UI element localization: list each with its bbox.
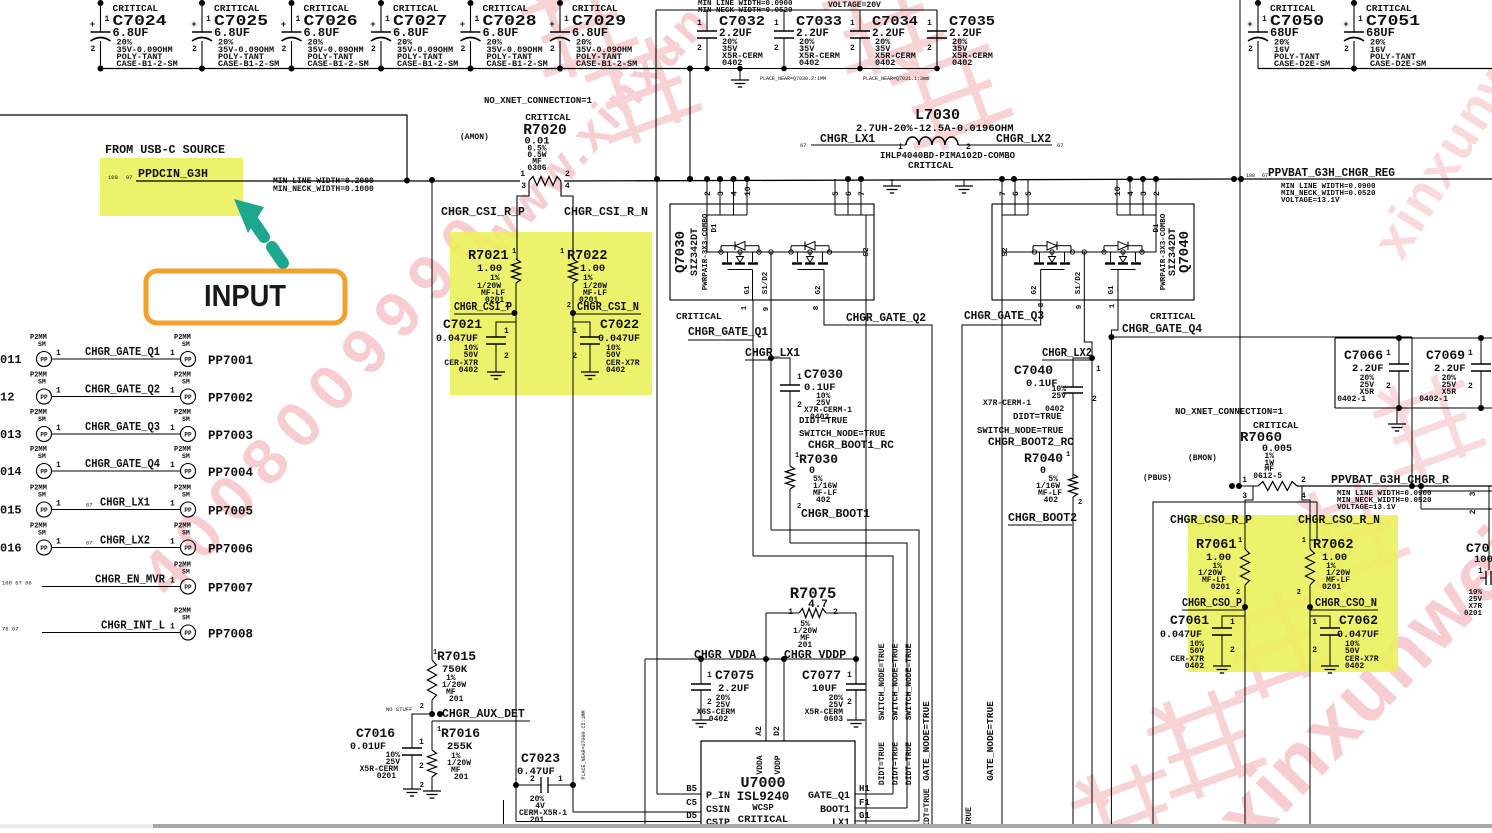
svg-text:2: 2 <box>847 698 852 707</box>
svg-text:PP: PP <box>184 630 192 637</box>
svg-text:SWITCH_NODE=TRUE: SWITCH_NODE=TRUE <box>892 643 901 720</box>
svg-text:2: 2 <box>1092 395 1097 404</box>
svg-text:2: 2 <box>704 191 713 196</box>
svg-text:1: 1 <box>927 19 932 28</box>
svg-text:402: 402 <box>816 496 831 505</box>
svg-text:SWITCH_NODE=TRUE: SWITCH_NODE=TRUE <box>878 643 887 720</box>
svg-text:VOLTAGE=13.1V: VOLTAGE=13.1V <box>1337 504 1396 512</box>
svg-text:1: 1 <box>741 305 749 310</box>
svg-text:SM: SM <box>38 492 46 499</box>
svg-text:VDDP: VDDP <box>774 755 783 774</box>
svg-text:1: 1 <box>1358 15 1363 24</box>
svg-text:2: 2 <box>461 45 466 54</box>
svg-text:G2: G2 <box>815 285 823 295</box>
svg-text:NO_XNET_CONNECTION=1: NO_XNET_CONNECTION=1 <box>484 96 593 106</box>
svg-text:0201: 0201 <box>377 772 396 781</box>
svg-text:0.01UF: 0.01UF <box>350 742 386 753</box>
svg-text:1: 1 <box>1478 567 1483 576</box>
svg-text:0402: 0402 <box>1185 662 1204 671</box>
svg-text:1: 1 <box>170 577 175 586</box>
svg-text:C7062: C7062 <box>1339 613 1378 628</box>
svg-text:CHGR_CSO_N: CHGR_CSO_N <box>1315 597 1377 610</box>
svg-text:PP: PP <box>184 545 192 552</box>
svg-text:MIN_NECK_WIDTH=0.1000: MIN_NECK_WIDTH=0.1000 <box>273 185 374 194</box>
svg-text:1: 1 <box>170 424 175 433</box>
svg-text:+: + <box>90 20 95 30</box>
svg-text:1: 1 <box>385 15 390 24</box>
svg-text:SWITCH_NODE=TRUE: SWITCH_NODE=TRUE <box>977 426 1064 436</box>
svg-text:2: 2 <box>419 762 424 771</box>
svg-text:1: 1 <box>56 387 61 396</box>
svg-text:PPVBAT_G3H_CHGR_R: PPVBAT_G3H_CHGR_R <box>1331 473 1450 487</box>
svg-text:0402-1: 0402-1 <box>1419 395 1448 404</box>
svg-text:F1: F1 <box>859 798 870 808</box>
svg-text:DIDT=TRUE: DIDT=TRUE <box>878 742 887 785</box>
svg-text:8: 8 <box>813 305 821 310</box>
svg-text:011: 011 <box>0 353 22 367</box>
svg-text:SM: SM <box>38 341 46 348</box>
svg-text:PP: PP <box>184 432 192 439</box>
svg-text:CRITICAL: CRITICAL <box>525 112 571 123</box>
svg-text:SM: SM <box>182 530 190 537</box>
svg-text:C7069: C7069 <box>1426 348 1465 363</box>
svg-text:0402: 0402 <box>459 366 478 375</box>
svg-text:25V: 25V <box>1052 392 1067 401</box>
svg-text:4: 4 <box>565 182 570 191</box>
svg-text:VOLTAGE=20V: VOLTAGE=20V <box>828 1 881 10</box>
svg-text:G2: G2 <box>1031 285 1039 295</box>
svg-text:PP: PP <box>40 357 48 364</box>
svg-text:0402: 0402 <box>799 58 819 68</box>
svg-text:SM: SM <box>38 453 46 460</box>
svg-text:SM: SM <box>182 492 190 499</box>
svg-text:1: 1 <box>419 738 424 747</box>
svg-text:1: 1 <box>1386 349 1391 358</box>
svg-text:CASE-B1-2-SM: CASE-B1-2-SM <box>308 59 369 69</box>
svg-text:2: 2 <box>927 44 932 53</box>
svg-text:4: 4 <box>1127 191 1136 196</box>
svg-text:CHGR_GATE_Q1: CHGR_GATE_Q1 <box>85 346 160 359</box>
svg-text:1: 1 <box>797 373 802 382</box>
svg-text:D2: D2 <box>773 726 782 736</box>
svg-text:CASE-B1-2-SM: CASE-B1-2-SM <box>487 59 548 69</box>
svg-text:C7066: C7066 <box>1344 348 1383 363</box>
svg-text:2: 2 <box>530 775 535 784</box>
svg-text:C7061: C7061 <box>1170 613 1209 628</box>
svg-text:VOLTAGE=13.1V: VOLTAGE=13.1V <box>1281 197 1340 205</box>
svg-text:0402: 0402 <box>875 58 895 68</box>
svg-text:0402-1: 0402-1 <box>1337 395 1366 404</box>
svg-text:SM: SM <box>182 569 190 576</box>
svg-text:CHGR_CSI_P: CHGR_CSI_P <box>454 301 512 314</box>
svg-text:2: 2 <box>1386 382 1391 391</box>
svg-text:S1/D2: S1/D2 <box>762 271 770 294</box>
svg-text:1: 1 <box>56 349 61 358</box>
svg-text:9: 9 <box>763 306 771 311</box>
svg-text:+: + <box>191 20 196 30</box>
svg-text:NO_XNET_CONNECTION=1: NO_XNET_CONNECTION=1 <box>1175 407 1284 417</box>
svg-text:CHGR_BOOT1_RC: CHGR_BOOT1_RC <box>808 440 894 452</box>
svg-text:0612-5: 0612-5 <box>1253 472 1282 481</box>
svg-text:CHGR_INT_L: CHGR_INT_L <box>101 620 165 633</box>
svg-text:0201: 0201 <box>1322 583 1341 592</box>
svg-text:2: 2 <box>282 45 287 54</box>
svg-text:7: 7 <box>858 191 867 196</box>
svg-text:D5: D5 <box>686 811 697 821</box>
svg-text:(AMON): (AMON) <box>460 133 489 142</box>
svg-text:PPVBAT_G3H_CHGR_REG: PPVBAT_G3H_CHGR_REG <box>1268 167 1395 180</box>
svg-text:2: 2 <box>1312 646 1317 655</box>
svg-text:B5: B5 <box>686 784 697 794</box>
svg-text:1: 1 <box>707 671 712 680</box>
svg-text:C7021: C7021 <box>443 317 482 332</box>
svg-text:67: 67 <box>800 142 807 149</box>
svg-text:5: 5 <box>832 191 841 196</box>
svg-text:2: 2 <box>1236 589 1240 597</box>
svg-text:P_IN: P_IN <box>706 791 730 802</box>
svg-text:GATE_NODE=TRUE: GATE_NODE=TRUE <box>921 701 932 781</box>
svg-text:CHGR_CSI_R_P: CHGR_CSI_R_P <box>441 206 525 219</box>
svg-text:DIDT=TRUE: DIDT=TRUE <box>923 788 932 828</box>
svg-text:R7030: R7030 <box>799 452 838 467</box>
svg-text:2.7UH-20%-12.5A-0.0196OHM: 2.7UH-20%-12.5A-0.0196OHM <box>856 123 1014 135</box>
svg-text:+: + <box>370 20 375 30</box>
svg-text:1: 1 <box>170 623 175 632</box>
svg-text:1: 1 <box>1468 349 1473 358</box>
svg-text:2: 2 <box>1344 45 1349 54</box>
svg-text:G1: G1 <box>744 285 752 295</box>
svg-text:CHGR_CSO_R_N: CHGR_CSO_R_N <box>1298 514 1380 527</box>
svg-text:C7077: C7077 <box>802 668 841 683</box>
svg-text:PP: PP <box>184 357 192 364</box>
svg-text:+: + <box>281 20 286 30</box>
svg-text:2: 2 <box>192 45 197 54</box>
svg-text:100 67 66: 100 67 66 <box>2 580 32 587</box>
svg-text:CASE-B1-2-SM: CASE-B1-2-SM <box>576 59 637 69</box>
svg-text:0402: 0402 <box>606 366 625 375</box>
svg-text:X7R-CERM-1: X7R-CERM-1 <box>983 399 1031 408</box>
svg-text:ISL9240: ISL9240 <box>737 790 790 804</box>
svg-text:3: 3 <box>1140 191 1149 196</box>
svg-text:PP: PP <box>40 394 48 401</box>
svg-text:PP7006: PP7006 <box>208 543 253 557</box>
svg-text:C7030: C7030 <box>804 367 843 382</box>
svg-text:PP: PP <box>184 584 192 591</box>
svg-text:1: 1 <box>433 649 437 657</box>
svg-text:+: + <box>460 20 465 30</box>
svg-text:PLACE_NEAR=Q7030.2:1MM: PLACE_NEAR=Q7030.2:1MM <box>760 76 826 82</box>
svg-text:1: 1 <box>558 775 563 784</box>
svg-text:2: 2 <box>850 44 855 53</box>
svg-text:013: 013 <box>0 428 22 442</box>
svg-text:H1: H1 <box>859 784 870 794</box>
svg-text:CASE-B1-2-SM: CASE-B1-2-SM <box>117 59 178 69</box>
svg-text:SIZ342DT: SIZ342DT <box>690 228 701 276</box>
svg-text:(BMON): (BMON) <box>1188 454 1217 463</box>
svg-text:1: 1 <box>1312 618 1317 627</box>
svg-text:PP7002: PP7002 <box>208 392 253 406</box>
svg-text:2: 2 <box>1469 509 1478 514</box>
svg-text:0402: 0402 <box>709 715 728 724</box>
svg-text:PP: PP <box>40 545 48 552</box>
svg-text:1: 1 <box>56 500 61 509</box>
svg-text:CHGR_LX2: CHGR_LX2 <box>100 535 150 548</box>
svg-text:PP: PP <box>184 507 192 514</box>
svg-text:R7022: R7022 <box>567 249 608 264</box>
svg-text:PP7004: PP7004 <box>208 466 254 480</box>
svg-text:2: 2 <box>1301 476 1306 485</box>
svg-text:CHGR_VDDP: CHGR_VDDP <box>784 649 846 662</box>
svg-text:SM: SM <box>182 453 190 460</box>
svg-text:6: 6 <box>845 191 854 196</box>
svg-text:3: 3 <box>1469 491 1478 496</box>
svg-text:CHGR_GATE_Q2: CHGR_GATE_Q2 <box>846 312 926 325</box>
svg-text:1: 1 <box>847 671 852 680</box>
svg-text:DIDT=TRUE: DIDT=TRUE <box>905 742 914 785</box>
svg-text:0402: 0402 <box>1345 662 1364 671</box>
svg-text:1: 1 <box>1096 365 1101 374</box>
svg-text:1: 1 <box>170 387 175 396</box>
svg-text:PLACE_NEAR=U7000.C5:1MM: PLACE_NEAR=U7000.C5:1MM <box>581 710 587 779</box>
svg-text:015: 015 <box>0 504 22 518</box>
svg-text:CHGR_EN_MVR: CHGR_EN_MVR <box>95 574 165 587</box>
svg-text:1: 1 <box>56 424 61 433</box>
svg-text:SWITCH_NODE=TRUE: SWITCH_NODE=TRUE <box>905 643 914 720</box>
svg-text:CHGR_LX2: CHGR_LX2 <box>996 133 1051 146</box>
svg-text:1: 1 <box>520 170 525 179</box>
svg-text:1: 1 <box>560 248 564 256</box>
svg-text:PP: PP <box>40 507 48 514</box>
svg-text:C7022: C7022 <box>600 317 639 332</box>
svg-text:+: + <box>1343 20 1348 30</box>
svg-text:SIZ342DT: SIZ342DT <box>1168 228 1179 276</box>
svg-text:PWRPAIR-3X3-COMBO: PWRPAIR-3X3-COMBO <box>1160 213 1168 290</box>
svg-text:CHGR_GATE_Q4: CHGR_GATE_Q4 <box>1122 323 1202 336</box>
svg-text:201: 201 <box>530 816 545 825</box>
svg-text:201: 201 <box>449 695 464 704</box>
svg-text:CHGR_BOOT1: CHGR_BOOT1 <box>801 508 870 521</box>
svg-text:67: 67 <box>86 502 93 509</box>
svg-text:CASE-B1-2-SM: CASE-B1-2-SM <box>397 59 458 69</box>
svg-text:S1/D2: S1/D2 <box>1075 271 1083 294</box>
svg-text:PP: PP <box>184 394 192 401</box>
svg-text:SWITCH_NODE=TRUE: SWITCH_NODE=TRUE <box>799 429 886 439</box>
svg-text:CHGR_AUX_DET: CHGR_AUX_DET <box>442 708 525 721</box>
svg-text:2: 2 <box>1297 589 1301 597</box>
svg-text:1: 1 <box>1109 303 1117 308</box>
svg-text:0: 0 <box>1040 466 1046 477</box>
svg-text:76 67: 76 67 <box>2 626 19 633</box>
svg-text:C7040: C7040 <box>1014 363 1053 378</box>
svg-text:1: 1 <box>56 538 61 547</box>
svg-text:2: 2 <box>697 44 702 53</box>
svg-text:CHGR_GATE_Q1: CHGR_GATE_Q1 <box>688 326 768 339</box>
svg-text:SM: SM <box>38 379 46 386</box>
svg-text:2: 2 <box>797 401 802 410</box>
svg-text:1000: 1000 <box>1474 554 1492 566</box>
svg-text:CSIN: CSIN <box>706 805 730 816</box>
svg-text:1: 1 <box>170 461 175 470</box>
svg-text:R7016: R7016 <box>441 726 480 741</box>
svg-text:PP: PP <box>184 469 192 476</box>
svg-text:CHGR_GATE_Q2: CHGR_GATE_Q2 <box>85 384 160 397</box>
svg-text:1: 1 <box>1230 618 1235 627</box>
svg-text:GATE_Q1: GATE_Q1 <box>808 791 850 802</box>
svg-text:0201: 0201 <box>1211 583 1230 592</box>
svg-text:1: 1 <box>1066 451 1070 459</box>
svg-text:CHGR_GATE_Q3: CHGR_GATE_Q3 <box>85 421 160 434</box>
svg-text:8: 8 <box>1038 302 1046 307</box>
svg-text:2: 2 <box>550 45 555 54</box>
svg-text:CASE-D2E-SM: CASE-D2E-SM <box>1274 59 1330 69</box>
svg-text:R7062: R7062 <box>1313 538 1354 553</box>
svg-text:CHGR_CSI_N: CHGR_CSI_N <box>577 301 639 314</box>
svg-text:0402: 0402 <box>952 58 972 68</box>
svg-text:67: 67 <box>86 540 93 547</box>
svg-text:CRITICAL: CRITICAL <box>1150 311 1196 322</box>
svg-text:C7075: C7075 <box>715 668 754 683</box>
svg-text:R7021: R7021 <box>468 249 509 264</box>
svg-text:0603: 0603 <box>824 715 843 724</box>
svg-text:CASE-B1-2-SM: CASE-B1-2-SM <box>218 59 279 69</box>
svg-text:INPUT: INPUT <box>204 278 286 313</box>
svg-text:2: 2 <box>567 302 571 310</box>
svg-text:CRITICAL: CRITICAL <box>676 311 722 322</box>
svg-text:DIDT=TRUE: DIDT=TRUE <box>1013 412 1062 422</box>
svg-text:CHGR_GATE_Q3: CHGR_GATE_Q3 <box>964 310 1044 323</box>
svg-text:CHGR_GATE_Q4: CHGR_GATE_Q4 <box>85 458 160 471</box>
svg-text:4: 4 <box>731 191 740 196</box>
svg-text:2: 2 <box>371 45 376 54</box>
svg-text:C7023: C7023 <box>521 751 560 766</box>
svg-text:PLACE_NEAR=Q7031.1:3mm: PLACE_NEAR=Q7031.1:3mm <box>863 76 929 82</box>
svg-text:CHGR_CSO_P: CHGR_CSO_P <box>1182 597 1242 610</box>
svg-text:1: 1 <box>1262 15 1267 24</box>
svg-text:PP7001: PP7001 <box>208 354 253 368</box>
svg-text:2: 2 <box>420 782 424 790</box>
svg-text:PP7005: PP7005 <box>208 505 253 519</box>
svg-text:BOOT1: BOOT1 <box>820 805 850 816</box>
svg-text:1: 1 <box>512 248 516 256</box>
svg-text:2: 2 <box>420 703 424 711</box>
svg-text:PP7007: PP7007 <box>208 582 253 596</box>
svg-text:1: 1 <box>850 19 855 28</box>
svg-text:DIDT=TRUE: DIDT=TRUE <box>799 416 848 426</box>
svg-text:1: 1 <box>1302 537 1306 545</box>
svg-text:G1: G1 <box>1108 285 1116 295</box>
svg-text:188: 188 <box>1246 173 1255 179</box>
svg-text:L7030: L7030 <box>915 107 960 124</box>
svg-text:CHGR_CSI_R_N: CHGR_CSI_R_N <box>564 206 648 219</box>
svg-text:2: 2 <box>1468 382 1473 391</box>
svg-text:R7061: R7061 <box>1196 538 1237 553</box>
svg-text:2: 2 <box>707 698 712 707</box>
svg-text:12: 12 <box>0 391 14 405</box>
svg-text:5: 5 <box>1025 191 1034 196</box>
svg-text:SM: SM <box>38 530 46 537</box>
svg-text:CHGR_BOOT2_RC: CHGR_BOOT2_RC <box>988 437 1074 449</box>
svg-text:DIDT=TRUE: DIDT=TRUE <box>892 742 901 785</box>
svg-text:+: + <box>1247 20 1252 30</box>
svg-text:SM: SM <box>182 341 190 348</box>
svg-text:7: 7 <box>999 191 1008 196</box>
svg-text:1: 1 <box>475 15 480 24</box>
svg-text:4.7: 4.7 <box>808 599 828 611</box>
svg-text:CRITICAL: CRITICAL <box>908 160 954 171</box>
svg-text:1: 1 <box>105 15 110 24</box>
svg-text:0306: 0306 <box>527 164 546 173</box>
svg-text:NO STUFF: NO STUFF <box>386 706 412 713</box>
svg-text:1: 1 <box>564 15 569 24</box>
svg-text:0201: 0201 <box>1464 610 1483 618</box>
svg-text:GATE_NODE=TRUE: GATE_NODE=TRUE <box>985 701 996 781</box>
svg-text:014: 014 <box>0 465 22 479</box>
svg-text:G1: G1 <box>859 811 870 821</box>
svg-text:97: 97 <box>126 174 133 181</box>
svg-text:R7015: R7015 <box>437 649 476 664</box>
svg-text:2: 2 <box>1078 499 1082 507</box>
svg-text:67: 67 <box>1057 142 1064 149</box>
svg-text:CHGR_CSO_R_P: CHGR_CSO_R_P <box>1170 514 1252 527</box>
svg-text:2: 2 <box>1153 191 1162 196</box>
svg-text:1: 1 <box>504 327 509 336</box>
svg-text:2: 2 <box>91 45 96 54</box>
svg-text:10: 10 <box>744 186 753 196</box>
svg-text:2: 2 <box>1248 45 1253 54</box>
svg-text:CHGR_LX1: CHGR_LX1 <box>820 133 875 146</box>
svg-text:PP: PP <box>40 432 48 439</box>
svg-text:1: 1 <box>56 461 61 470</box>
svg-text:Q7040: Q7040 <box>1177 231 1193 273</box>
svg-text:1: 1 <box>697 19 702 28</box>
svg-text:1: 1 <box>170 500 175 509</box>
svg-text:PPDCIN_G3H: PPDCIN_G3H <box>138 167 208 181</box>
svg-text:1: 1 <box>170 349 175 358</box>
svg-text:201: 201 <box>454 773 469 782</box>
svg-text:1: 1 <box>206 15 211 24</box>
svg-text:3: 3 <box>521 182 526 191</box>
svg-text:1: 1 <box>1242 476 1247 485</box>
svg-text:CASE-D2E-SM: CASE-D2E-SM <box>1370 59 1426 69</box>
svg-text:SM: SM <box>182 379 190 386</box>
svg-text:PP7003: PP7003 <box>208 429 253 443</box>
svg-text:C5: C5 <box>686 798 697 808</box>
svg-text:CHGR_BOOT2: CHGR_BOOT2 <box>1008 512 1077 525</box>
svg-text:016: 016 <box>0 542 22 556</box>
svg-text:PP: PP <box>40 469 48 476</box>
svg-text:FROM USB-C SOURCE: FROM USB-C SOURCE <box>105 143 225 157</box>
svg-text:10: 10 <box>1114 186 1123 196</box>
svg-text:0.47UF: 0.47UF <box>517 766 555 778</box>
svg-text:Q7030: Q7030 <box>673 231 689 273</box>
svg-text:6: 6 <box>1012 191 1021 196</box>
svg-text:R7040: R7040 <box>1024 451 1063 466</box>
svg-text:SM: SM <box>38 416 46 423</box>
svg-text:3: 3 <box>717 191 726 196</box>
svg-text:A2: A2 <box>755 726 764 736</box>
svg-text:2: 2 <box>565 170 570 179</box>
svg-text:SM: SM <box>182 416 190 423</box>
svg-text:C7016: C7016 <box>356 726 395 741</box>
svg-text:1: 1 <box>296 15 301 24</box>
svg-text:2: 2 <box>1230 646 1235 655</box>
svg-text:WCSP: WCSP <box>752 803 774 813</box>
svg-text:VDDA: VDDA <box>756 755 765 774</box>
svg-text:9: 9 <box>1076 304 1084 309</box>
svg-text:100: 100 <box>108 174 118 181</box>
svg-text:PP7008: PP7008 <box>208 628 253 642</box>
svg-text:2: 2 <box>504 352 509 361</box>
